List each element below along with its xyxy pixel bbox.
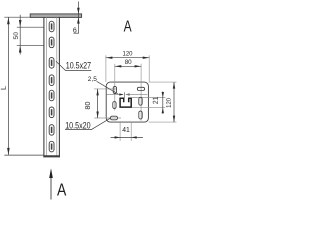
extension line plate left edge (120 top) xyxy=(105,55,107,82)
dimension 6: arrow down (above plate) xyxy=(77,8,80,14)
label 10.5x27: leader line xyxy=(56,61,91,70)
svg-text:A: A xyxy=(57,179,67,199)
dimension 120 top: line xyxy=(106,57,149,59)
dimension L: arrow up xyxy=(7,17,10,24)
strut outer right edge xyxy=(58,17,60,157)
svg-text:80: 80 xyxy=(85,102,92,110)
dimension 50: extension line lower (slot 2 centre) xyxy=(17,44,44,46)
hole ML (vertical slot) xyxy=(113,102,116,109)
label 10.5x20: leader xyxy=(65,118,110,129)
dimension 41 bottom: line xyxy=(111,136,143,138)
dimension 2,5: right arrow and line xyxy=(125,93,129,95)
slot 8 xyxy=(49,141,54,152)
slot 7 xyxy=(49,125,54,136)
slot 4 xyxy=(49,75,54,86)
svg-text:120: 120 xyxy=(123,50,133,57)
section arrow bottom xyxy=(50,177,52,200)
dimension 6: arrow up (below plate) xyxy=(77,17,80,23)
slot 2 xyxy=(49,37,54,48)
channel section A-A (C profile) xyxy=(120,98,131,107)
strut inner left fold line xyxy=(46,17,48,155)
dimension 50: dimension line xyxy=(19,15,21,55)
svg-text:L: L xyxy=(0,86,8,90)
dimension L: arrow down xyxy=(7,148,10,155)
dimension 2,5: left line and arrow xyxy=(106,94,122,96)
head plate (plan view) xyxy=(106,82,148,122)
svg-text:2,5: 2,5 xyxy=(88,76,97,83)
dimension 120 right: line xyxy=(173,82,175,122)
dimension 21 right: line xyxy=(162,92,164,114)
svg-text:50: 50 xyxy=(13,32,20,40)
hole TR (horizontal slot) xyxy=(137,87,144,90)
dimension L: extension line bottom xyxy=(4,154,44,156)
hole TL (vertical slot) xyxy=(113,86,116,93)
strut outer left edge xyxy=(43,17,45,157)
extension/centre line through left holes xyxy=(114,64,116,111)
top plate (side view, left elevation) xyxy=(30,14,81,18)
extension lines 41 (channel sides) xyxy=(119,122,121,141)
svg-text:41: 41 xyxy=(122,127,130,134)
svg-text:21: 21 xyxy=(153,97,160,105)
slot 5 xyxy=(49,90,54,101)
svg-text:10.5x27: 10.5x27 xyxy=(66,61,91,71)
svg-text:120: 120 xyxy=(166,98,173,108)
strut bottom end xyxy=(43,155,60,157)
dimension 6: label underline xyxy=(73,32,78,34)
slot 6 xyxy=(49,107,54,118)
dimension 80 left: line xyxy=(97,89,99,118)
extension lines 120 right (plate top/bottom) xyxy=(149,81,177,83)
svg-text:A: A xyxy=(124,19,133,36)
extension lines 21 (channel top/bottom) xyxy=(132,97,165,99)
extension line left 80 bottom (slot BL centre) xyxy=(94,117,121,119)
hole BL (horizontal slot) xyxy=(110,116,117,120)
dimension 50: arrow down (above) xyxy=(19,20,22,27)
dimension 2,5: lip tick xyxy=(123,92,125,98)
hole BR (vertical slot) xyxy=(139,111,142,119)
hole MR (vertical slot) xyxy=(139,97,142,105)
dimension 80 top: line xyxy=(115,65,141,67)
slot 1 xyxy=(49,21,54,32)
dimension 2,5: leader xyxy=(97,81,119,94)
dimension L: dimension line xyxy=(7,17,9,155)
dimension 50: extension line upper (slot 1 centre) xyxy=(17,26,44,28)
dimension 50: arrow up (below) xyxy=(19,46,22,53)
extension line plate right edge (120 top) xyxy=(148,55,150,82)
strut inner right fold line xyxy=(56,17,58,155)
dimension L: extension line top xyxy=(4,16,30,18)
dimension 6 (plate thickness): dimension line xyxy=(77,2,79,34)
svg-text:10.5x20: 10.5x20 xyxy=(65,121,90,131)
extension/centre line through right holes xyxy=(140,64,142,121)
svg-text:80: 80 xyxy=(125,59,132,66)
extension line left 80 top (hole TL centre) xyxy=(94,88,117,90)
slot 3 xyxy=(49,58,54,69)
